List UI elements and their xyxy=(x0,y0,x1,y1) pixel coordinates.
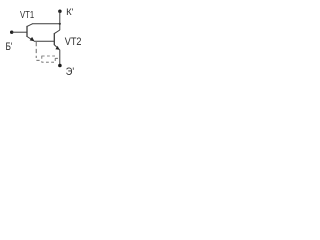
transistor VT1 emitter lead with arrow xyxy=(27,37,34,41)
wire VT1 emitter to VT2 base xyxy=(34,40,54,42)
junction collector T-node xyxy=(59,23,61,25)
transistor VT2 emitter lead with arrow xyxy=(54,45,59,50)
resistor R (optional, dashed) xyxy=(42,56,55,62)
transistor VT1 collector lead xyxy=(27,24,32,27)
node E' terminal dot xyxy=(58,64,62,68)
wire dashed resistor right lead xyxy=(55,57,59,59)
wire dashed resistor left lead vertical xyxy=(35,42,37,58)
node K' terminal dot xyxy=(58,9,62,13)
svg-text:VT1: VT1 xyxy=(20,10,34,21)
svg-text:Э': Э' xyxy=(66,66,74,78)
transistor VT2 base bar xyxy=(53,33,55,45)
svg-text:К': К' xyxy=(66,7,74,17)
wire VT1 collector to K' line xyxy=(32,23,60,25)
wire K' vertical xyxy=(59,11,61,30)
wire base input xyxy=(12,31,27,33)
wire VT2 emitter vertical xyxy=(59,50,61,66)
svg-text:Б': Б' xyxy=(6,41,13,53)
transistor VT2 collector lead xyxy=(54,30,60,34)
svg-text:VT2: VT2 xyxy=(65,36,82,48)
wire dashed resistor left lead horizontal xyxy=(36,59,39,61)
transistor VT1 base bar xyxy=(26,26,28,37)
node B' terminal dot xyxy=(10,31,13,34)
